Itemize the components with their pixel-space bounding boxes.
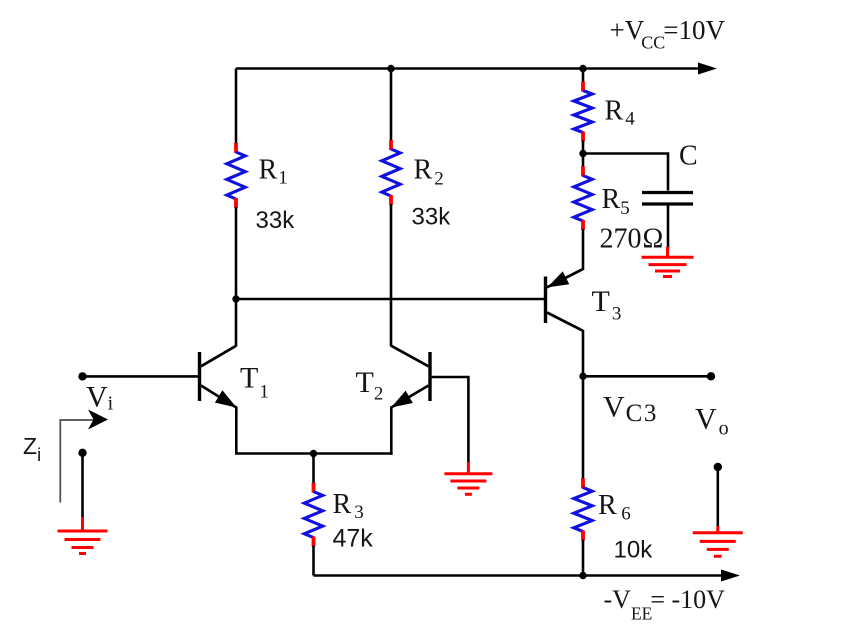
- svg-text:R5: R5: [602, 184, 630, 219]
- node R4/R5/C junction: [579, 150, 586, 157]
- svg-text:C: C: [679, 141, 698, 172]
- svg-text:R4: R4: [605, 96, 636, 130]
- wire input ground lead: [81, 453, 84, 519]
- svg-text:33k: 33k: [412, 204, 452, 231]
- node emitter/R3 junction: [310, 450, 317, 457]
- resistor R5: [574, 167, 592, 231]
- svg-text:Zi: Zi: [23, 433, 41, 465]
- node Vi terminal: [78, 372, 86, 380]
- resistor R3: [304, 483, 322, 547]
- svg-text:10k: 10k: [614, 537, 654, 564]
- wire node A: T1/T2 collector rail to T3 base: [236, 298, 544, 301]
- ground (capacitor): [642, 247, 694, 277]
- wire C top lead: [583, 154, 668, 191]
- ground (T2 base): [444, 462, 492, 494]
- ground (output): [693, 526, 743, 556]
- node input ground terminal: [78, 449, 86, 457]
- wire R6 top lead: [582, 376, 585, 480]
- wire R1 top lead: [235, 69, 238, 145]
- wire T3 collector lead: [582, 330, 585, 377]
- capacitor C: [642, 193, 693, 205]
- node output ground terminal: [714, 463, 722, 471]
- resistor R4: [574, 82, 592, 142]
- node VC3 junction: [579, 373, 586, 380]
- resistor R2: [382, 140, 400, 205]
- svg-text:T3: T3: [592, 285, 622, 325]
- wire VCC rail: [236, 67, 700, 70]
- wire VC3 to Vo: [583, 375, 711, 378]
- wire output ground lead: [716, 467, 719, 528]
- transistor T3: [546, 269, 584, 331]
- svg-text:270Ω: 270Ω: [600, 224, 664, 255]
- ground (input): [58, 517, 108, 554]
- wire T2 emitter lead: [390, 407, 393, 455]
- wire R5 top lead: [582, 154, 585, 168]
- node R1/base-wire junction: [232, 295, 239, 302]
- wire T1 collector lead: [235, 299, 238, 347]
- wire C bottom lead: [667, 206, 670, 250]
- svg-text:R6: R6: [598, 490, 631, 525]
- VCC rail arrowhead: [698, 63, 717, 75]
- wire T2 base to ground: [430, 377, 468, 464]
- svg-text:Vi: Vi: [86, 381, 114, 415]
- transistor T2: [391, 346, 430, 408]
- wire VEE rail: [314, 574, 724, 577]
- wire R2 bottom lead / T2 collector: [390, 204, 393, 347]
- wire R2 top lead: [390, 69, 393, 142]
- svg-text:R2: R2: [414, 155, 444, 190]
- svg-text:33k: 33k: [256, 207, 296, 234]
- svg-text:R1: R1: [259, 155, 288, 189]
- svg-text:Vo: Vo: [695, 403, 729, 440]
- Zi impedance arrow: [60, 410, 108, 503]
- wire Vi to T1 base: [83, 375, 199, 378]
- node VEE-R6 junction: [579, 572, 586, 579]
- wire T1 emitter lead: [235, 407, 238, 455]
- node VCC-R2 junction: [387, 65, 394, 72]
- node VCC-R4 junction: [579, 65, 586, 72]
- svg-text:T2: T2: [356, 366, 384, 405]
- svg-text:47k: 47k: [333, 525, 374, 553]
- svg-text:-VEE= -10V: -VEE= -10V: [604, 585, 726, 624]
- wire R4 bottom lead: [582, 141, 585, 154]
- svg-text:R3: R3: [333, 489, 364, 523]
- resistor R1: [227, 143, 245, 208]
- wire R5 bottom / T3 emitter lead: [582, 229, 585, 270]
- node Vo terminal: [707, 372, 715, 380]
- resistor R6: [574, 479, 592, 541]
- wire R3 bottom lead: [312, 546, 315, 576]
- transistor T1: [200, 346, 237, 408]
- svg-text:VC3: VC3: [603, 391, 658, 428]
- wire common emitter wire: [235, 452, 393, 455]
- wire R6 bottom lead: [582, 540, 585, 576]
- wire R4 top lead: [582, 69, 585, 84]
- wire R1 bottom lead: [235, 207, 238, 299]
- svg-text:+VCC=10V: +VCC=10V: [610, 15, 726, 53]
- VEE rail arrowhead: [721, 570, 740, 582]
- wire R3 top lead: [312, 454, 315, 484]
- svg-text:T1: T1: [240, 362, 269, 403]
